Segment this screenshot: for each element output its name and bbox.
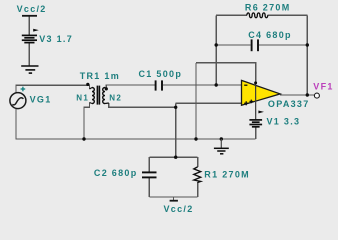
junction V- column on ground rail	[194, 137, 197, 140]
svg-text:C2 680p: C2 680p	[94, 168, 138, 178]
wire noninverting input row	[176, 102, 242, 104]
capacitor C1	[156, 80, 162, 90]
junction inverting node	[215, 83, 218, 86]
svg-text:VG1: VG1	[30, 95, 52, 105]
ground (below V3)	[21, 66, 38, 73]
wire V3 bottom to ground	[28, 43, 30, 66]
svg-text:V3 1.7: V3 1.7	[39, 34, 73, 44]
svg-text:Vcc/2: Vcc/2	[164, 204, 194, 214]
primary winding N1	[92, 88, 94, 104]
wire V1 bottom to ground rail	[255, 127, 257, 139]
op-amp supply pin dot	[254, 81, 257, 84]
svg-text:N2: N2	[109, 94, 122, 103]
junction ground stub on rail	[220, 137, 223, 140]
pin VF1 open circle	[314, 93, 319, 98]
wire R1 column	[197, 157, 199, 167]
battery V1	[249, 120, 262, 127]
junction dot N1 bottom on ground rail	[82, 137, 85, 140]
wire feedback right column	[306, 15, 308, 95]
junction C4 left	[215, 43, 218, 46]
svg-text:OPA337: OPA337	[268, 99, 310, 109]
source VG1	[10, 93, 26, 109]
wire C2/R1 bottom rail	[149, 196, 197, 198]
battery V1 polarity arrow	[258, 111, 264, 114]
transformer TR1	[90, 86, 109, 105]
wire Vcc/2 stub to V3	[28, 16, 30, 35]
polarity dot primary	[86, 83, 89, 86]
resistor R6 zigzag	[247, 13, 268, 18]
battery V3	[22, 35, 37, 42]
svg-text:C1 500p: C1 500p	[139, 69, 183, 79]
core	[96, 86, 98, 105]
wire noninverting node down to C2/R1 rail	[175, 103, 177, 157]
node Vcc/2 tap bar (top)	[22, 15, 37, 17]
wire C1 to op-amp inverting input	[163, 84, 242, 86]
wire C2 column	[148, 157, 150, 171]
svg-text:Vcc/2: Vcc/2	[17, 4, 47, 14]
wire TR1 primary bottom lead	[84, 103, 90, 140]
wire VG1 top to TR1 primary top	[16, 85, 90, 93]
svg-text:C4 680p: C4 680p	[248, 30, 292, 40]
svg-text:R6 270M: R6 270M	[245, 2, 291, 12]
wire C2/R1 top rail	[149, 156, 197, 158]
op-amp minus marker	[244, 84, 247, 86]
wire feedback left column	[215, 15, 217, 85]
op-amp U1 OPA337	[242, 80, 281, 105]
ground (near V1)	[220, 139, 222, 148]
wire Vcc/2 bottom tap stub	[173, 197, 175, 200]
wire R6 top row	[216, 14, 247, 16]
capacitor C4	[252, 39, 258, 51]
wire TR1 secondary top lead to C1	[106, 85, 155, 89]
node Vcc/2 tap bar (bottom)	[170, 200, 178, 202]
wire VG1 bottom to ground rail	[15, 109, 17, 139]
battery V3 polarity arrow	[33, 29, 39, 32]
svg-text:V1 3.3: V1 3.3	[267, 116, 301, 126]
polarity dot secondary	[105, 87, 108, 90]
op-amp plus marker (input)	[244, 101, 248, 105]
wire V- column down to ground rail	[195, 63, 197, 139]
junction N2 bottom lead	[174, 106, 177, 109]
wire TR1 secondary bottom lead	[109, 103, 176, 107]
wire op-amp V- top path	[196, 63, 256, 83]
wire op-amp output to VF1	[280, 94, 314, 96]
capacitor C2	[142, 172, 157, 177]
svg-text:VF1: VF1	[313, 81, 333, 91]
secondary winding N2	[103, 88, 105, 104]
junction C4 right	[306, 43, 309, 46]
op-amp supply pin line through body	[255, 83, 257, 120]
VG1 plus marker	[21, 87, 26, 92]
junction C2/R1 top rail	[174, 156, 177, 159]
wire C4 row	[216, 44, 251, 46]
op-amp supply plus marker	[250, 100, 254, 104]
wire ground rail	[15, 138, 255, 140]
svg-text:TR1 1m: TR1 1m	[80, 71, 120, 81]
resistor R1 zigzag	[194, 167, 201, 183]
junction output node	[306, 93, 309, 96]
svg-text:R1 270M: R1 270M	[204, 169, 250, 179]
svg-text:N1: N1	[76, 94, 89, 103]
